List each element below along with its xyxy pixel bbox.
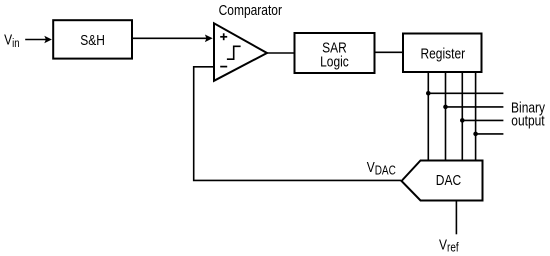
- svg-text:output: output: [511, 112, 545, 129]
- svg-text:Vin: Vin: [4, 31, 19, 50]
- svg-text:S&H: S&H: [80, 32, 105, 49]
- svg-text:Comparator: Comparator: [219, 2, 283, 19]
- svg-text:VDAC: VDAC: [367, 159, 396, 178]
- svg-text:Logic: Logic: [320, 53, 349, 70]
- svg-text:Register: Register: [420, 45, 465, 62]
- svg-text:Vref: Vref: [439, 236, 459, 255]
- svg-text:DAC: DAC: [436, 172, 461, 189]
